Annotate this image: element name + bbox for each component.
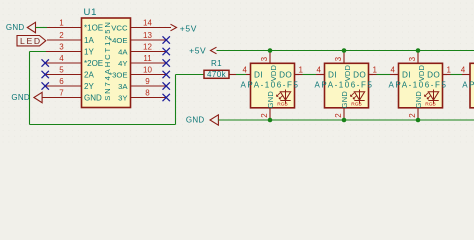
no-connect on U1 pin 12 — [163, 48, 170, 55]
wire left vertical down — [29, 52, 31, 125]
svg-text:3: 3 — [334, 56, 343, 61]
LED module 3 pin 2 (GND) — [408, 108, 418, 120]
svg-text:*1OE: *1OE — [84, 23, 103, 32]
svg-text:3: 3 — [59, 42, 64, 51]
svg-text:7: 7 — [59, 88, 64, 97]
wire LED1 DO to LED2 DI — [295, 74, 325, 76]
LED module 1 pin 3 (VDD) — [260, 51, 270, 64]
svg-text:2A: 2A — [84, 70, 94, 79]
LED module 3 internal LED glyph — [425, 90, 439, 104]
svg-text:3Y: 3Y — [118, 93, 127, 102]
wire R1 to LED1 DI — [236, 74, 246, 76]
svg-text:+5V: +5V — [180, 23, 197, 33]
svg-text:1A: 1A — [84, 36, 94, 45]
svg-text:1: 1 — [447, 66, 452, 75]
svg-text:GND: GND — [414, 91, 423, 109]
svg-text:*2OE: *2OE — [84, 59, 103, 68]
svg-text:14: 14 — [143, 18, 152, 27]
U1 pin 1 — [47, 18, 82, 27]
svg-text:4Y: 4Y — [118, 59, 127, 68]
LED module 3 pin 1 (DO) — [443, 66, 452, 75]
svg-text:+5V: +5V — [189, 46, 206, 56]
U1 value SN74AHCT125N (vertical) — [103, 20, 112, 101]
svg-text:GND: GND — [266, 91, 275, 109]
svg-text:RGB: RGB — [351, 101, 361, 107]
U1 pin 7 — [42, 88, 81, 97]
wire right vertical up to R1 row — [175, 75, 177, 125]
wire bottom horizontal — [30, 124, 176, 126]
svg-text:DO: DO — [353, 70, 366, 79]
svg-text:APA-106-F5: APA-106-F5 — [315, 81, 374, 90]
svg-text:U1: U1 — [84, 7, 98, 18]
LED module 1 pin 1 (DO) — [295, 66, 304, 75]
svg-text:3: 3 — [408, 56, 417, 61]
svg-text:4: 4 — [461, 66, 466, 75]
svg-text:R1: R1 — [211, 59, 222, 68]
svg-text:2: 2 — [59, 31, 64, 40]
no-connect on U1 pin 11 — [163, 59, 170, 66]
LED module 3 value APA-106-F5 — [389, 81, 448, 90]
wire GND rail (bottom) — [218, 119, 474, 121]
svg-text:2Y: 2Y — [84, 82, 94, 91]
power symbol +5V feeding LED rail — [189, 46, 216, 56]
U1 pin 13 — [131, 31, 167, 40]
junction GND rail at LED 3 — [416, 118, 421, 123]
LED module 2 pin 1 (DO) — [369, 66, 378, 75]
LED module 1 pin 2 (GND) — [260, 108, 270, 120]
LED module 2 APA-106-F5 body — [325, 63, 369, 108]
svg-text:RGB: RGB — [277, 101, 287, 107]
LED module 2 value APA-106-F5 — [315, 81, 374, 90]
svg-text:4: 4 — [243, 66, 248, 75]
LED module 1 pin 4 (DI) — [243, 66, 251, 75]
power symbol GND at U1 pin 1 — [6, 22, 36, 32]
U1 pin 3 — [46, 42, 82, 51]
junction GND rail at LED 1 — [268, 118, 273, 123]
svg-text:*3OE: *3OE — [109, 70, 127, 79]
U1 pin 6 — [45, 77, 81, 86]
svg-text:2: 2 — [334, 113, 343, 118]
no-connect on U1 pin 9 — [163, 82, 170, 89]
svg-text:2: 2 — [408, 113, 417, 118]
svg-text:12: 12 — [143, 42, 152, 51]
svg-text:4: 4 — [391, 66, 396, 75]
U1 pin 8 — [131, 88, 167, 97]
svg-text:APA-106-F5: APA-106-F5 — [241, 81, 300, 90]
no-connect on U1 pin 8 — [163, 94, 170, 101]
svg-text:1: 1 — [299, 66, 304, 75]
LED module 2 internal LED glyph — [351, 90, 365, 104]
no-connect on U1 pin 4 — [42, 59, 49, 66]
U1 pin 14 — [131, 18, 172, 27]
junction GND rail at LED 2 — [342, 118, 347, 123]
global label LED on U1 pin 2 — [17, 36, 46, 47]
LED module 4 APA-106-F5 body (partial) — [470, 63, 474, 108]
svg-text:4: 4 — [317, 66, 322, 75]
svg-text:GND: GND — [84, 93, 102, 102]
svg-text:10: 10 — [143, 65, 152, 74]
svg-text:GND: GND — [186, 116, 205, 125]
U1 pin 9 — [131, 77, 167, 86]
R1 reference designator — [211, 59, 222, 68]
junction +5V rail at LED 1 — [268, 48, 273, 53]
wire +5V rail (top) — [217, 50, 474, 52]
no-connect on U1 pin 6 — [42, 82, 49, 89]
svg-text:DI: DI — [402, 70, 411, 79]
LED module 2 pin 3 (VDD) — [334, 51, 344, 64]
LED module 2 pin 4 (DI) — [317, 66, 325, 75]
wire LED2 DO to LED3 DI — [369, 74, 399, 76]
wire U1 pin 3 to left vertical — [30, 51, 47, 53]
U1 pin 12 — [131, 42, 167, 51]
svg-text:GND: GND — [11, 93, 30, 102]
svg-text:11: 11 — [143, 54, 152, 63]
no-connect on U1 pin 5 — [42, 71, 49, 78]
U1 pin 10 — [131, 65, 167, 74]
svg-text:LED: LED — [20, 36, 42, 46]
LED module 3 RGB marking — [425, 101, 435, 107]
U1 pin 5 — [45, 65, 81, 74]
svg-text:VDD: VDD — [417, 64, 426, 81]
junction +5V rail at LED 2 — [342, 48, 347, 53]
svg-text:1: 1 — [59, 18, 64, 27]
LED module 4 value APA-106-F5 (clipped) — [462, 81, 474, 90]
svg-text:13: 13 — [143, 31, 152, 40]
U1 pin 11 — [131, 54, 167, 63]
svg-text:5: 5 — [59, 65, 64, 74]
svg-text:VCC: VCC — [111, 23, 128, 32]
LED module 2 RGB marking — [351, 101, 361, 107]
LED module 1 RGB marking — [277, 101, 287, 107]
wire LED3 DO to LED4 DI — [443, 74, 471, 76]
svg-text:DI: DI — [254, 70, 263, 79]
LED module 4 pin 4 (DI) — [461, 66, 466, 75]
LED module 1 APA-106-F5 body — [251, 63, 295, 108]
svg-text:9: 9 — [145, 77, 150, 86]
U1 pin 2 — [47, 31, 82, 40]
svg-text:GND: GND — [6, 23, 25, 32]
svg-text:1Y: 1Y — [84, 47, 94, 56]
svg-text:*4OE: *4OE — [109, 36, 127, 45]
junction +5V rail at LED 3 — [416, 48, 421, 53]
power symbol +5V at U1 pin 14 — [171, 23, 197, 33]
svg-text:VDD: VDD — [343, 64, 352, 81]
LED module 2 pin 2 (GND) — [334, 108, 344, 120]
U1 reference designator — [84, 7, 98, 18]
wire to resistor R1 — [176, 74, 205, 76]
svg-text:2: 2 — [260, 113, 269, 118]
svg-text:RGB: RGB — [425, 101, 435, 107]
R1 right lead — [229, 74, 236, 76]
no-connect on U1 pin 10 — [163, 71, 170, 78]
LED module 3 pin 3 (VDD) — [408, 51, 418, 64]
U1 pin 4 — [45, 54, 81, 63]
power symbol GND for LED rail — [186, 115, 219, 125]
power symbol GND at U1 pin 7 — [11, 92, 42, 102]
IC U1 body (SN74AHCT125N quad buffer) — [82, 18, 131, 108]
svg-text:1: 1 — [373, 66, 378, 75]
svg-text:DO: DO — [427, 70, 440, 79]
R1 value 470k — [207, 70, 227, 79]
svg-text:470k: 470k — [207, 70, 227, 79]
svg-text:APA-106-F5: APA-106-F5 — [389, 81, 448, 90]
svg-text:DO: DO — [279, 70, 292, 79]
svg-text:4: 4 — [59, 54, 64, 63]
LED module 3 APA-106-F5 body — [399, 63, 443, 108]
no-connect on U1 pin 13 — [163, 36, 170, 43]
svg-text:SN74AHCT125N: SN74AHCT125N — [103, 20, 112, 101]
svg-text:APA: APA — [462, 81, 474, 90]
svg-text:GND: GND — [340, 91, 349, 109]
LED module 3 pin 4 (DI) — [391, 66, 399, 75]
LED module 1 internal LED glyph — [277, 90, 291, 104]
svg-text:3A: 3A — [118, 82, 128, 91]
resistor R1 body — [204, 70, 229, 78]
svg-text:4A: 4A — [118, 47, 128, 56]
svg-text:6: 6 — [59, 77, 64, 86]
LED module 1 value APA-106-F5 — [241, 81, 300, 90]
svg-text:DI: DI — [328, 70, 337, 79]
svg-text:8: 8 — [145, 88, 150, 97]
wire GND symbol to U1 pin 1 — [36, 27, 48, 29]
svg-text:VDD: VDD — [269, 64, 278, 81]
svg-text:3: 3 — [260, 56, 269, 61]
